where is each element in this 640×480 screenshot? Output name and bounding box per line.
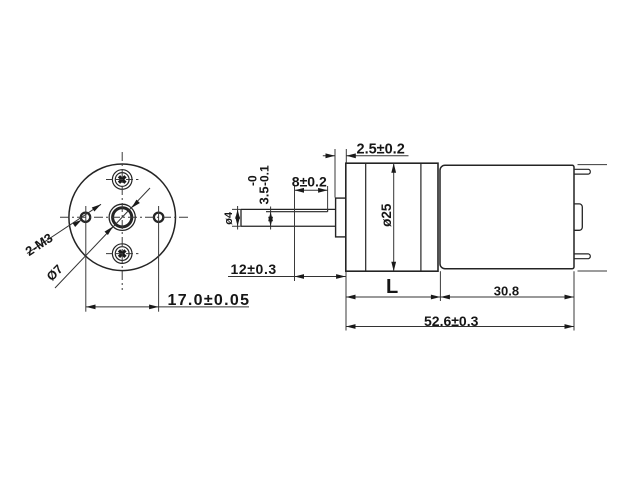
svg-text:12±0.3: 12±0.3 [231, 261, 277, 277]
gearbox body outline [346, 163, 438, 271]
arrow 3.5 down [268, 217, 273, 227]
front boss [336, 198, 346, 237]
top screw cross recess [119, 176, 126, 183]
dimension line 52.6 [346, 326, 574, 328]
dimension line L / 30.8 [346, 296, 574, 298]
left hole vertical extension line [85, 206, 87, 312]
arrow 52.6 left [346, 324, 356, 329]
left M3 mounting hole [81, 213, 90, 222]
rear extension line bottom [578, 270, 608, 272]
arrow Ø4 up [235, 209, 240, 219]
svg-text:-0.1: -0.1 [258, 165, 272, 186]
arrow Ø25 up [391, 163, 396, 173]
arrow 2-M3 upper [92, 204, 101, 211]
dimension 8 extension line left [294, 186, 296, 281]
extension line below gearbox/motor junction [439, 271, 441, 301]
svg-text:52.6±0.3: 52.6±0.3 [424, 313, 479, 329]
gearbox internal line 2 [420, 163, 422, 271]
arrow 52.6 right [565, 324, 575, 329]
right M3 mounting hole [154, 213, 163, 222]
shaft flat edge line [266, 209, 328, 211]
dimension 8 extension line right [327, 186, 329, 212]
arrow 2-M3 lower [73, 220, 82, 227]
arrow 12 left [295, 274, 305, 279]
dimension line 8 [295, 189, 328, 191]
center shaft hole outer circle [109, 204, 135, 230]
top assembly screw head circle [115, 173, 129, 187]
vertical centerline of face [121, 152, 123, 290]
label 3.5 -0 -0.1 [246, 165, 272, 205]
arrow 30.8 left [440, 295, 450, 300]
arrow Ø7 lower [105, 227, 113, 235]
svg-text:17.0±0.05: 17.0±0.05 [168, 292, 251, 309]
leader line Ø7 [55, 188, 150, 288]
motor top terminal [574, 169, 590, 174]
arrow L left [346, 295, 356, 300]
svg-text:2-M3: 2-M3 [23, 230, 56, 259]
leader line 2-M3 [27, 204, 101, 253]
bottom assembly screw outer circle [112, 244, 132, 264]
svg-text:ø4: ø4 [223, 211, 235, 225]
arrow 8 right [318, 188, 328, 193]
arrow 12 right [336, 274, 346, 279]
horizontal centerline of face [60, 216, 188, 218]
shaft outline [241, 209, 336, 226]
dimension line Ø25 [393, 163, 395, 271]
arrow 8 left [295, 188, 305, 193]
shaft extension tails [232, 209, 241, 226]
dimension line Ø4 [237, 206, 239, 230]
center shaft hole inner bore [113, 208, 132, 227]
gearbox internal line 1 [365, 163, 367, 271]
bottom screw horizontal crosshair [106, 253, 138, 255]
svg-text:2.5±0.2: 2.5±0.2 [357, 142, 405, 158]
bottom screw cross recess [119, 250, 126, 257]
motor rear bearing boss [574, 204, 582, 230]
rear extension line top [578, 164, 608, 166]
bottom assembly screw head circle [115, 247, 129, 261]
svg-text:L: L [386, 276, 398, 298]
arrow Ø7 upper [131, 200, 139, 208]
arrow 2.5 right [346, 153, 356, 158]
right hole vertical extension line [158, 206, 160, 312]
dimension line 17.0 [86, 306, 249, 308]
svg-text:30.8: 30.8 [494, 284, 519, 299]
dimension 2.5 extension line right [345, 149, 347, 163]
dimension line 3.5 [270, 207, 272, 230]
arrow right 17.0 [149, 305, 159, 310]
arrow 30.8 right [565, 295, 575, 300]
motor bottom terminal [574, 254, 590, 259]
arrow L right [431, 295, 441, 300]
dimension 12 line [228, 276, 346, 278]
svg-text:8±0.2: 8±0.2 [292, 174, 327, 190]
dimension line 2.5 [323, 155, 409, 157]
arrow 2.5 left [326, 153, 336, 158]
extension line below gearbox front face [345, 271, 347, 330]
gearbox face outer circle [69, 164, 176, 271]
top assembly screw outer circle [112, 170, 132, 190]
svg-text:3.5: 3.5 [257, 186, 272, 204]
extension line below motor rear [573, 271, 575, 330]
arrow 3.5 up [268, 212, 273, 222]
arrow Ø25 down [391, 262, 396, 272]
dimension 2.5 extension line left [334, 149, 336, 198]
svg-text:ø25: ø25 [379, 203, 394, 227]
arrow left 17.0 [86, 305, 96, 310]
arrow Ø4 down [235, 217, 240, 227]
motor can outline [440, 165, 574, 268]
top screw horizontal crosshair [106, 179, 138, 181]
